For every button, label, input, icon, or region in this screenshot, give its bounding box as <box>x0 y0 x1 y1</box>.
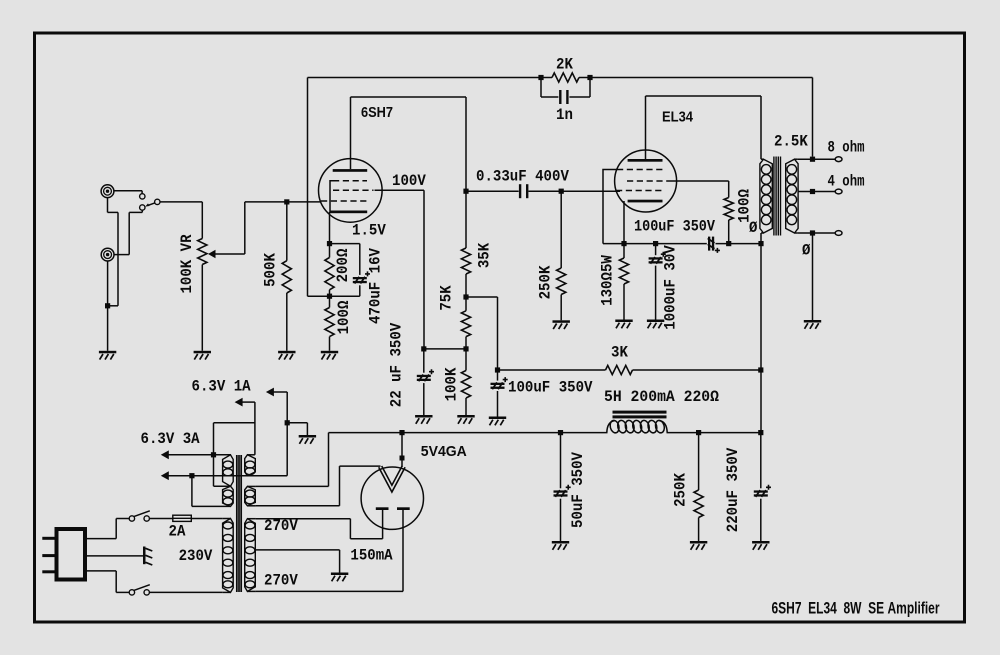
wire pole to volume pot <box>160 201 202 203</box>
terminal 4 ohm <box>835 189 842 194</box>
wire 6.3V 1A b <box>242 401 255 403</box>
resistor 100R screen stopper <box>724 198 733 221</box>
arrow 6.3V 1A b <box>235 398 243 407</box>
tube 5V4GA filament <box>379 467 405 492</box>
svg-text:200Ω: 200Ω <box>334 249 352 283</box>
tube EL34 grid g3 <box>617 169 663 171</box>
transformer PT 5V winding <box>245 486 256 505</box>
svg-text:Ø: Ø <box>802 242 810 260</box>
junction 3K B+ node <box>758 367 763 372</box>
resistor 2K feedback <box>541 77 552 79</box>
tube 5V4GA envelope <box>361 467 423 529</box>
tube 6SH7 g3 tie <box>330 181 333 212</box>
capacitor 50uF 350V reservoir <box>558 430 563 435</box>
junction B+ branch node <box>495 367 500 372</box>
tube 6SH7 plate <box>333 169 368 172</box>
resistor 200R cathode <box>329 244 331 258</box>
transformer PT 6.3V winding right <box>245 455 256 476</box>
junction 4 ohm <box>810 189 815 194</box>
wire J2 to selector contact 2 <box>141 210 143 212</box>
junction EL34 grid node <box>559 189 564 194</box>
resistor 500K grid leak <box>286 202 288 261</box>
wire plate1 to HV top <box>382 510 384 539</box>
wire EL34 plate to OPT <box>645 96 647 160</box>
ground 50uF <box>552 541 569 544</box>
selector switch SW1 contact 1 <box>140 194 145 199</box>
svg-text:6SH7 EL34 8W SE Amplifier: 6SH7 EL34 8W SE Amplifier <box>772 599 940 618</box>
wire EL34 screen to 100R <box>668 180 729 182</box>
input jack J1 <box>101 185 114 198</box>
tube 5V4GA plate 2 <box>397 507 410 510</box>
wire 6.3V 3A a <box>168 454 231 456</box>
wire J1 to selector contact 1 <box>114 190 142 192</box>
transformer OPT primary winding <box>760 159 772 233</box>
ground 130R <box>615 320 632 323</box>
wire grid node to 6SH7 g1 <box>287 201 321 203</box>
transformer OPT secondary winding <box>786 159 798 233</box>
wire J2 shell down <box>107 261 109 351</box>
junction 8 ohm feedback <box>810 157 815 162</box>
switch mains a <box>129 516 134 521</box>
resistor 100K screen divider <box>465 349 467 371</box>
resistor 130R 5W cathode <box>623 244 625 258</box>
wire plate2 to HV bottom <box>402 510 404 591</box>
selector switch SW1 arm <box>148 203 155 205</box>
wire heater ground jog <box>287 422 307 424</box>
junction 35K 75K node <box>463 294 468 299</box>
svg-text:100K: 100K <box>442 367 460 401</box>
chassis earth mains <box>143 547 146 565</box>
wire 6SH7 cathode <box>329 212 331 244</box>
svg-text:150mA: 150mA <box>350 546 393 564</box>
selector switch SW1 contact 2 <box>140 205 145 210</box>
ground 22uF <box>415 415 432 418</box>
svg-text:0.33uF 400V: 0.33uF 400V <box>476 168 570 186</box>
wire rail left end to 5V winding <box>328 433 330 487</box>
svg-text:3K: 3K <box>611 344 629 362</box>
junction EL34 cathode rail 2 <box>653 241 658 246</box>
junction 5V4GA top cap <box>400 456 405 461</box>
junction heater ground <box>285 420 290 425</box>
svg-text:2.5K: 2.5K <box>774 132 808 150</box>
wire B+ rail <box>329 432 608 434</box>
svg-text:470uF 16V: 470uF 16V <box>367 247 385 324</box>
wire B+ to rail <box>760 244 762 433</box>
tube 6SH7 cathode <box>330 211 368 214</box>
arrow 6.3V 1A a <box>266 388 274 397</box>
wire cathode rail <box>603 243 707 245</box>
wire 6.3V 3A b <box>168 475 287 477</box>
arrow 6.3V 3A a <box>161 450 169 459</box>
potentiometer VR1 100K <box>198 239 207 265</box>
tube 6SH7 grid g1 <box>321 200 367 202</box>
tube 5V4GA plate 1 <box>376 507 389 510</box>
wire 35K node to B+ branch <box>466 296 498 298</box>
svg-text:130Ω5W: 130Ω5W <box>598 255 616 306</box>
wire wiper to grid node <box>215 253 245 255</box>
wire HV center tap <box>256 549 340 551</box>
junction EL34 cathode rail 1 <box>621 241 626 246</box>
mains plug <box>57 529 86 580</box>
switch mains b <box>129 590 134 595</box>
svg-text:1.5V: 1.5V <box>352 222 386 240</box>
wire feedback to output tap <box>590 77 813 79</box>
wire OPT primary return <box>760 233 762 244</box>
wire EL34 cathode <box>623 201 625 244</box>
wire heater link <box>214 422 255 424</box>
ground 100K <box>457 415 474 418</box>
wire switch b to primary <box>149 591 222 593</box>
tube 6SH7 envelope <box>319 159 383 223</box>
svg-text:100K VR: 100K VR <box>178 234 196 294</box>
capacitor 100uF 350V EL34 bypass <box>708 237 710 251</box>
wire 6SH7 plate circuit <box>350 97 352 169</box>
wire screen node to bypass <box>424 348 466 350</box>
terminal 8 ohm <box>835 157 842 162</box>
wire 0 tap to ground <box>812 233 814 320</box>
wire fuse to primary <box>191 518 223 520</box>
selector switch SW1 pole <box>155 199 160 204</box>
junction feedback RC right <box>587 75 592 80</box>
wire rectifier to rail <box>401 433 403 467</box>
junction 6SH7 cathode <box>327 241 332 246</box>
capacitor 0.33uF 400V coupling <box>466 190 519 192</box>
svg-text:EL34: EL34 <box>662 109 694 126</box>
wire mains earth <box>86 555 143 557</box>
junction OPT primary bottom <box>758 241 763 246</box>
tube EL34 cathode <box>628 200 663 203</box>
transformer PT 6.3V winding left 2 <box>223 486 234 506</box>
resistor 3K dropper <box>498 369 606 371</box>
fuse 2A <box>149 518 172 520</box>
junction 6.3V 3A b <box>189 473 194 478</box>
resistor 250K EL34 grid leak <box>560 191 562 268</box>
ground 6SH7 cathode network <box>321 351 338 354</box>
svg-text:5V4GA: 5V4GA <box>421 443 467 460</box>
tube 6SH7 grid g2 <box>333 189 374 191</box>
junction 0 tap <box>810 230 815 235</box>
svg-text:Ø: Ø <box>749 219 757 237</box>
svg-text:220uF 350V: 220uF 350V <box>724 447 742 532</box>
svg-text:4 ohm: 4 ohm <box>828 172 865 190</box>
choke 5H 200mA 220R <box>613 411 667 414</box>
junction input ground <box>105 303 110 308</box>
wire 4 ohm tap <box>798 191 836 193</box>
junction screen node <box>463 346 468 351</box>
svg-text:100uF 350V: 100uF 350V <box>508 378 593 396</box>
junction feedback RC left <box>538 75 543 80</box>
svg-text:2A: 2A <box>169 523 187 541</box>
capacitor 220uF 350V filter <box>758 430 763 435</box>
transformer PT 6.3V winding left <box>223 455 234 486</box>
svg-text:8 ohm: 8 ohm <box>828 139 865 157</box>
junction rectifier output <box>399 430 404 435</box>
junction 100R bottom <box>726 241 731 246</box>
svg-text:6SH7: 6SH7 <box>361 104 393 121</box>
svg-text:100Ω: 100Ω <box>335 301 353 335</box>
junction 6SH7 plate node <box>463 189 468 194</box>
wire mains live <box>86 538 116 540</box>
ground input <box>99 351 116 354</box>
ground 1000uF <box>647 320 664 323</box>
capacitor 22uF 350V screen bypass <box>423 349 425 373</box>
svg-text:6.3V 1A: 6.3V 1A <box>192 378 252 396</box>
tube EL34 plate <box>628 159 663 162</box>
terminal 0 <box>835 231 842 236</box>
capacitor 100uF 350V filter <box>497 370 499 381</box>
ground pot <box>194 351 211 354</box>
wire mains neutral <box>86 570 116 572</box>
capacitor 1n feedback <box>540 78 542 98</box>
potentiometer wiper arrow <box>208 250 216 258</box>
svg-text:2K: 2K <box>556 56 574 74</box>
wire 0 tap <box>798 232 836 234</box>
tube EL34 envelope <box>615 150 677 212</box>
ground 250K <box>553 320 570 323</box>
transformer PT core <box>236 455 238 592</box>
ground 500K <box>278 351 295 354</box>
resistor 35K plate load <box>461 248 470 274</box>
resistor 100R feedback leg <box>329 296 331 307</box>
svg-text:100V: 100V <box>392 172 426 190</box>
ground 250K bleeder <box>690 541 707 544</box>
svg-text:100Ω: 100Ω <box>735 189 753 223</box>
capacitor 1000uF 30V cathode bypass <box>655 244 657 256</box>
wire feedback left vertical <box>307 78 309 297</box>
svg-text:1000uF 30V: 1000uF 30V <box>661 245 679 330</box>
svg-text:22 uF 350V: 22 uF 350V <box>388 322 406 407</box>
wire pot bottom to ground <box>201 265 203 351</box>
junction feedback injection <box>327 294 332 299</box>
transformer PT 230V primary <box>223 519 234 593</box>
svg-text:270V: 270V <box>264 517 298 535</box>
svg-text:230V: 230V <box>179 547 213 565</box>
svg-text:250K: 250K <box>536 265 554 299</box>
svg-text:250K: 250K <box>671 472 689 506</box>
wire 5V winding to filament <box>256 505 340 507</box>
wire EL34 g3 tie <box>603 170 617 244</box>
junction 22uF node <box>421 346 426 351</box>
wire J1 shell to ground bus <box>107 198 109 213</box>
wire 6SH7 screen to divider <box>375 189 425 191</box>
ground HV center tap <box>331 573 348 576</box>
svg-text:75K: 75K <box>437 285 455 311</box>
input jack J2 <box>101 248 114 261</box>
tube EL34 grid g1 <box>616 190 663 192</box>
ground 100uF <box>489 417 506 420</box>
svg-text:35K: 35K <box>475 242 493 268</box>
tube EL34 grid g2 <box>627 180 668 182</box>
wire 6.3V 1A a <box>274 391 288 393</box>
ground OPT secondary <box>804 320 821 323</box>
wire to EL34 grid <box>561 190 620 192</box>
wire 8 ohm tap <box>798 158 836 160</box>
transformer OPT core <box>773 157 775 236</box>
capacitor 470uF 16V cathode bypass <box>330 243 360 245</box>
transformer PT HV winding <box>245 519 256 592</box>
junction grid node <box>284 199 289 204</box>
svg-text:1n: 1n <box>556 106 573 124</box>
arrow 6.3V 3A b <box>161 471 169 480</box>
svg-text:100uF 350V: 100uF 350V <box>634 217 716 235</box>
wire feedback to cathode node <box>308 295 330 297</box>
svg-text:270V: 270V <box>264 572 298 590</box>
svg-text:6.3V 3A: 6.3V 3A <box>141 430 201 448</box>
svg-text:500K: 500K <box>261 252 279 286</box>
ground heater <box>299 435 316 438</box>
svg-text:5H 200mA 220Ω: 5H 200mA 220Ω <box>604 388 719 406</box>
resistor 75K screen feed <box>461 311 470 337</box>
tube 6SH7 grid g3 <box>333 180 367 182</box>
junction 6.3V 3A a <box>211 452 216 457</box>
resistor 250K bleeder <box>696 430 701 435</box>
ground 220uF <box>752 541 769 544</box>
wire 6.3V 3A b tap <box>191 476 193 507</box>
svg-text:50uF 350V: 50uF 350V <box>569 451 587 528</box>
